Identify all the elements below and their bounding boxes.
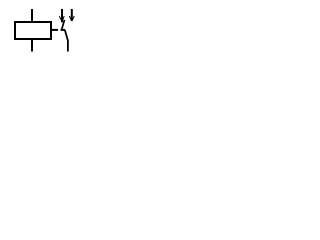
contact blade (lower spring to terminal) xyxy=(65,30,68,52)
mechanical linkage dash 2 xyxy=(61,29,65,31)
actuation arrow 2 (right, pointing down) xyxy=(69,9,74,21)
contact blade (upper moving spring) xyxy=(62,20,65,30)
actuation arrow 1 (left, pointing down) xyxy=(59,9,64,22)
mechanical linkage dash (coil to contact) xyxy=(51,29,58,31)
wire (coil top lead) xyxy=(31,9,33,22)
wire (coil bottom lead) xyxy=(31,39,33,52)
relay coil K1 (rectangle) xyxy=(15,22,51,39)
background xyxy=(0,0,83,61)
